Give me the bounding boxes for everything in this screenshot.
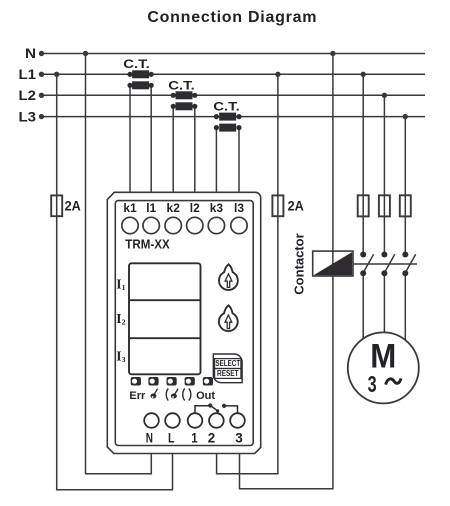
svg-text:L1: L1 <box>19 67 37 82</box>
svg-text:k1: k1 <box>123 201 137 215</box>
svg-text:k2: k2 <box>167 201 181 215</box>
svg-text:2A: 2A <box>65 199 81 214</box>
svg-text:l2: l2 <box>190 201 200 215</box>
svg-text:2: 2 <box>208 430 216 445</box>
svg-text:Contactor: Contactor <box>292 233 307 294</box>
svg-text:Connection Diagram: Connection Diagram <box>147 9 317 26</box>
svg-text:Err: Err <box>129 390 146 402</box>
svg-text:L: L <box>168 430 175 445</box>
svg-text:SELECT: SELECT <box>215 359 240 368</box>
svg-text:3: 3 <box>235 430 243 445</box>
svg-text:N: N <box>25 46 36 61</box>
svg-text:C.T.: C.T. <box>123 57 150 71</box>
svg-text:M: M <box>370 338 396 376</box>
svg-text:3: 3 <box>368 371 377 397</box>
svg-text:1: 1 <box>191 430 198 445</box>
svg-text:Out: Out <box>196 390 215 402</box>
svg-text:C.T.: C.T. <box>213 100 240 114</box>
svg-text:RESET: RESET <box>217 369 239 378</box>
svg-text:L3: L3 <box>19 109 37 124</box>
svg-text:k3: k3 <box>210 201 224 215</box>
svg-text:2A: 2A <box>288 199 304 214</box>
svg-text:N: N <box>146 430 153 445</box>
svg-text:TRM-XX: TRM-XX <box>125 238 170 252</box>
svg-text:l3: l3 <box>234 201 244 215</box>
svg-text:l1: l1 <box>146 201 156 215</box>
svg-text:L2: L2 <box>19 88 37 103</box>
svg-text:C.T.: C.T. <box>168 79 195 93</box>
